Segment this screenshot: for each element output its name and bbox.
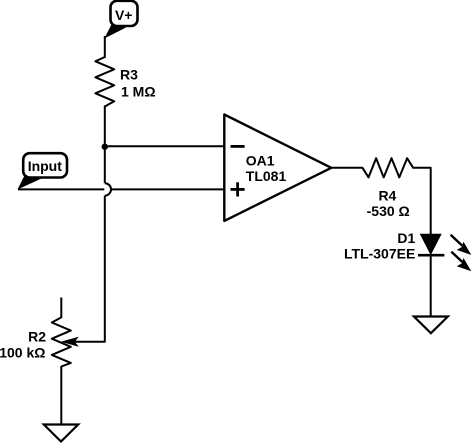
wire R2 to ground <box>60 366 62 425</box>
wire hop to potentiometer wiper <box>75 196 105 342</box>
op-amp minus input sign <box>231 145 245 148</box>
svg-text:D1: D1 <box>397 230 415 246</box>
svg-text:LTL-307EE: LTL-307EE <box>344 245 415 261</box>
resistor R4 <box>363 158 414 177</box>
wire hop over input wire <box>105 183 111 195</box>
potentiometer R2 wiper arrow <box>61 337 79 347</box>
svg-text:TL081: TL081 <box>246 168 287 184</box>
svg-text:R4: R4 <box>378 188 396 204</box>
wire input to op-amp plus input <box>18 188 225 190</box>
wire V+ flag to R3 <box>104 36 106 58</box>
wire junction to op-amp minus input <box>105 145 225 147</box>
wire R4 to LED <box>413 168 431 235</box>
LED D1 triangle <box>420 234 442 256</box>
net flag V+ <box>104 1 137 39</box>
svg-text:100 kΩ: 100 kΩ <box>0 345 46 361</box>
wire junction down to hop <box>104 146 106 183</box>
wire op-amp output to R4 <box>330 167 363 169</box>
svg-text:OA1: OA1 <box>246 153 275 169</box>
svg-text:-530 Ω: -530 Ω <box>367 203 410 219</box>
wire R3 to junction <box>104 106 106 147</box>
op-amp U1 triangle <box>224 115 331 221</box>
junction dot <box>102 144 108 150</box>
ground (right, under D1) <box>414 317 448 334</box>
svg-text:Input: Input <box>28 158 63 174</box>
op-amp plus input sign <box>231 182 245 196</box>
LED emission arrow 1 <box>451 235 472 255</box>
svg-text:1 MΩ: 1 MΩ <box>121 83 156 99</box>
resistor R3 <box>95 57 114 107</box>
wire LED to ground <box>430 255 432 317</box>
ground (left, under R2) <box>44 425 78 442</box>
LED emission arrow 2 <box>451 252 471 272</box>
svg-text:V+: V+ <box>115 7 133 23</box>
net flag Input <box>18 153 68 189</box>
wire R2 top stub <box>60 298 62 319</box>
LED D1 cathode bar <box>418 254 444 257</box>
svg-text:R3: R3 <box>120 67 138 83</box>
svg-text:R2: R2 <box>28 329 46 345</box>
potentiometer R2 zigzag <box>52 317 71 366</box>
